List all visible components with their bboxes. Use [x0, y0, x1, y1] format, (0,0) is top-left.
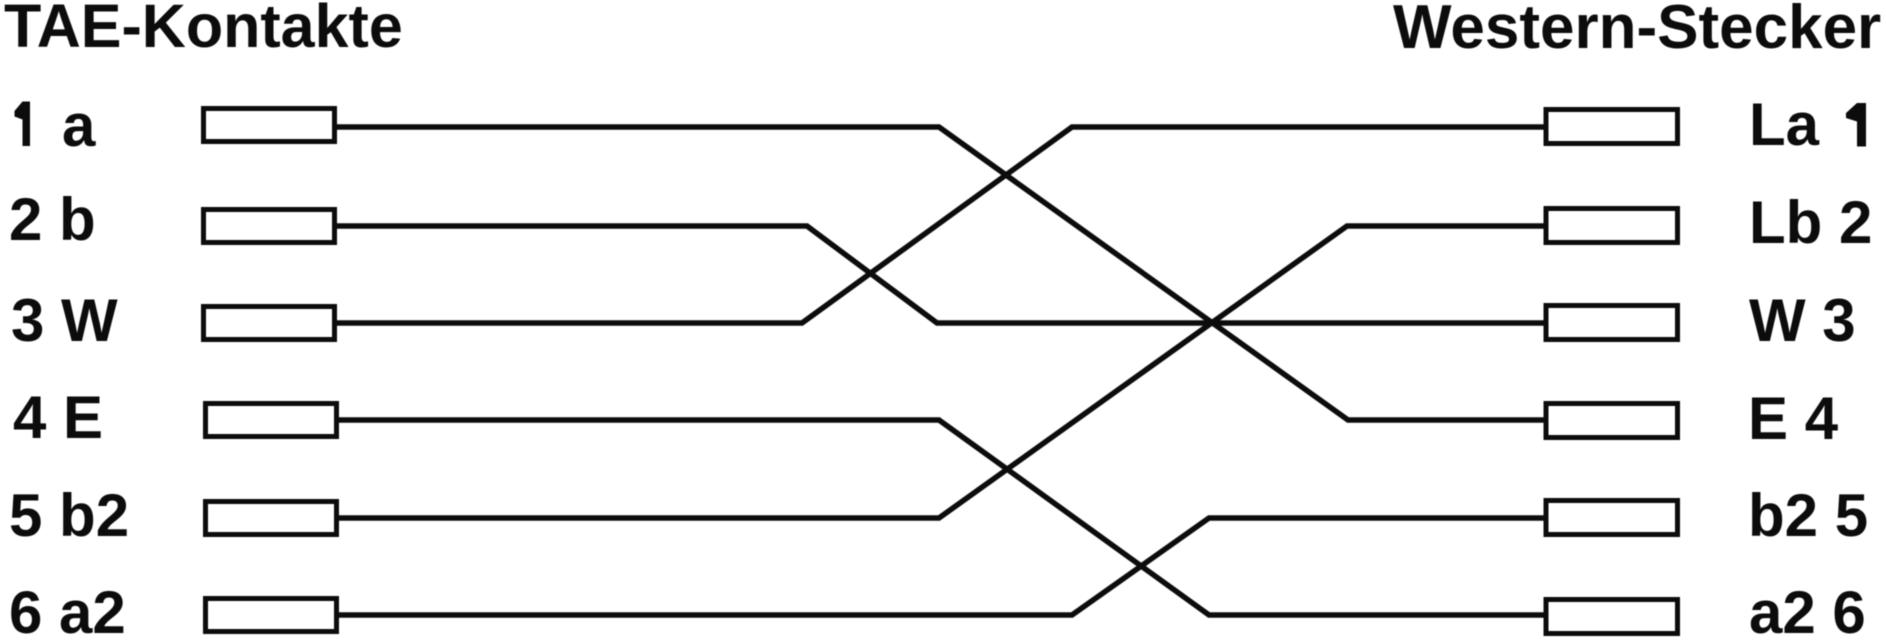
svg-text:TAE-Kontakte: TAE-Kontakte: [4, 0, 403, 60]
svg-text:W 3: W 3: [1749, 287, 1856, 354]
Western pin 4 contact rectangle: [1546, 404, 1678, 438]
svg-text:5 b2: 5 b2: [9, 482, 129, 549]
Western pin 2 contact rectangle: [1546, 209, 1678, 243]
wire TAE 4 E to Western a2 6: [337, 420, 1546, 615]
svg-text:E 4: E 4: [1748, 385, 1839, 452]
TAE pin 5 contact rectangle: [206, 502, 337, 535]
svg-text:a: a: [62, 92, 96, 159]
wire TAE 3 W to Western La 1: [337, 127, 1546, 323]
svg-text:6 a2: 6 a2: [9, 579, 126, 643]
svg-text:La: La: [1749, 91, 1820, 158]
Western pin 5 contact rectangle: [1546, 501, 1678, 535]
TAE pin 1 contact rectangle: [204, 109, 335, 142]
Western pin 3 contact rectangle: [1546, 306, 1678, 340]
TAE pin 3 contact rectangle: [204, 307, 335, 340]
wire TAE 5 b2 to Western Lb 2: [337, 226, 1546, 518]
Western pin 6 contact rectangle: [1546, 600, 1678, 634]
Western pin 1 contact rectangle: [1546, 110, 1678, 144]
svg-text:3 W: 3 W: [11, 287, 118, 354]
svg-text:b2 5: b2 5: [1748, 482, 1868, 549]
TAE pin 6 contact rectangle: [206, 599, 337, 632]
wire TAE 6 a2 to Western b2 5: [337, 518, 1546, 615]
svg-text:Western-Stecker: Western-Stecker: [1393, 0, 1881, 62]
pin label 1 a : digit 1 drawn as path (no foot serif): [15, 102, 31, 147]
TAE pin 2 contact rectangle: [204, 210, 335, 243]
svg-text:Lb 2: Lb 2: [1749, 189, 1872, 256]
svg-text:2 b: 2 b: [9, 186, 96, 253]
TAE pin 4 contact rectangle: [206, 404, 337, 437]
wire TAE 1 a to Western E 4: [337, 127, 1546, 420]
wire TAE 2 b to Western W 3: [337, 226, 1546, 323]
svg-text:a2 6: a2 6: [1749, 579, 1866, 643]
svg-text:4 E: 4 E: [13, 384, 103, 451]
